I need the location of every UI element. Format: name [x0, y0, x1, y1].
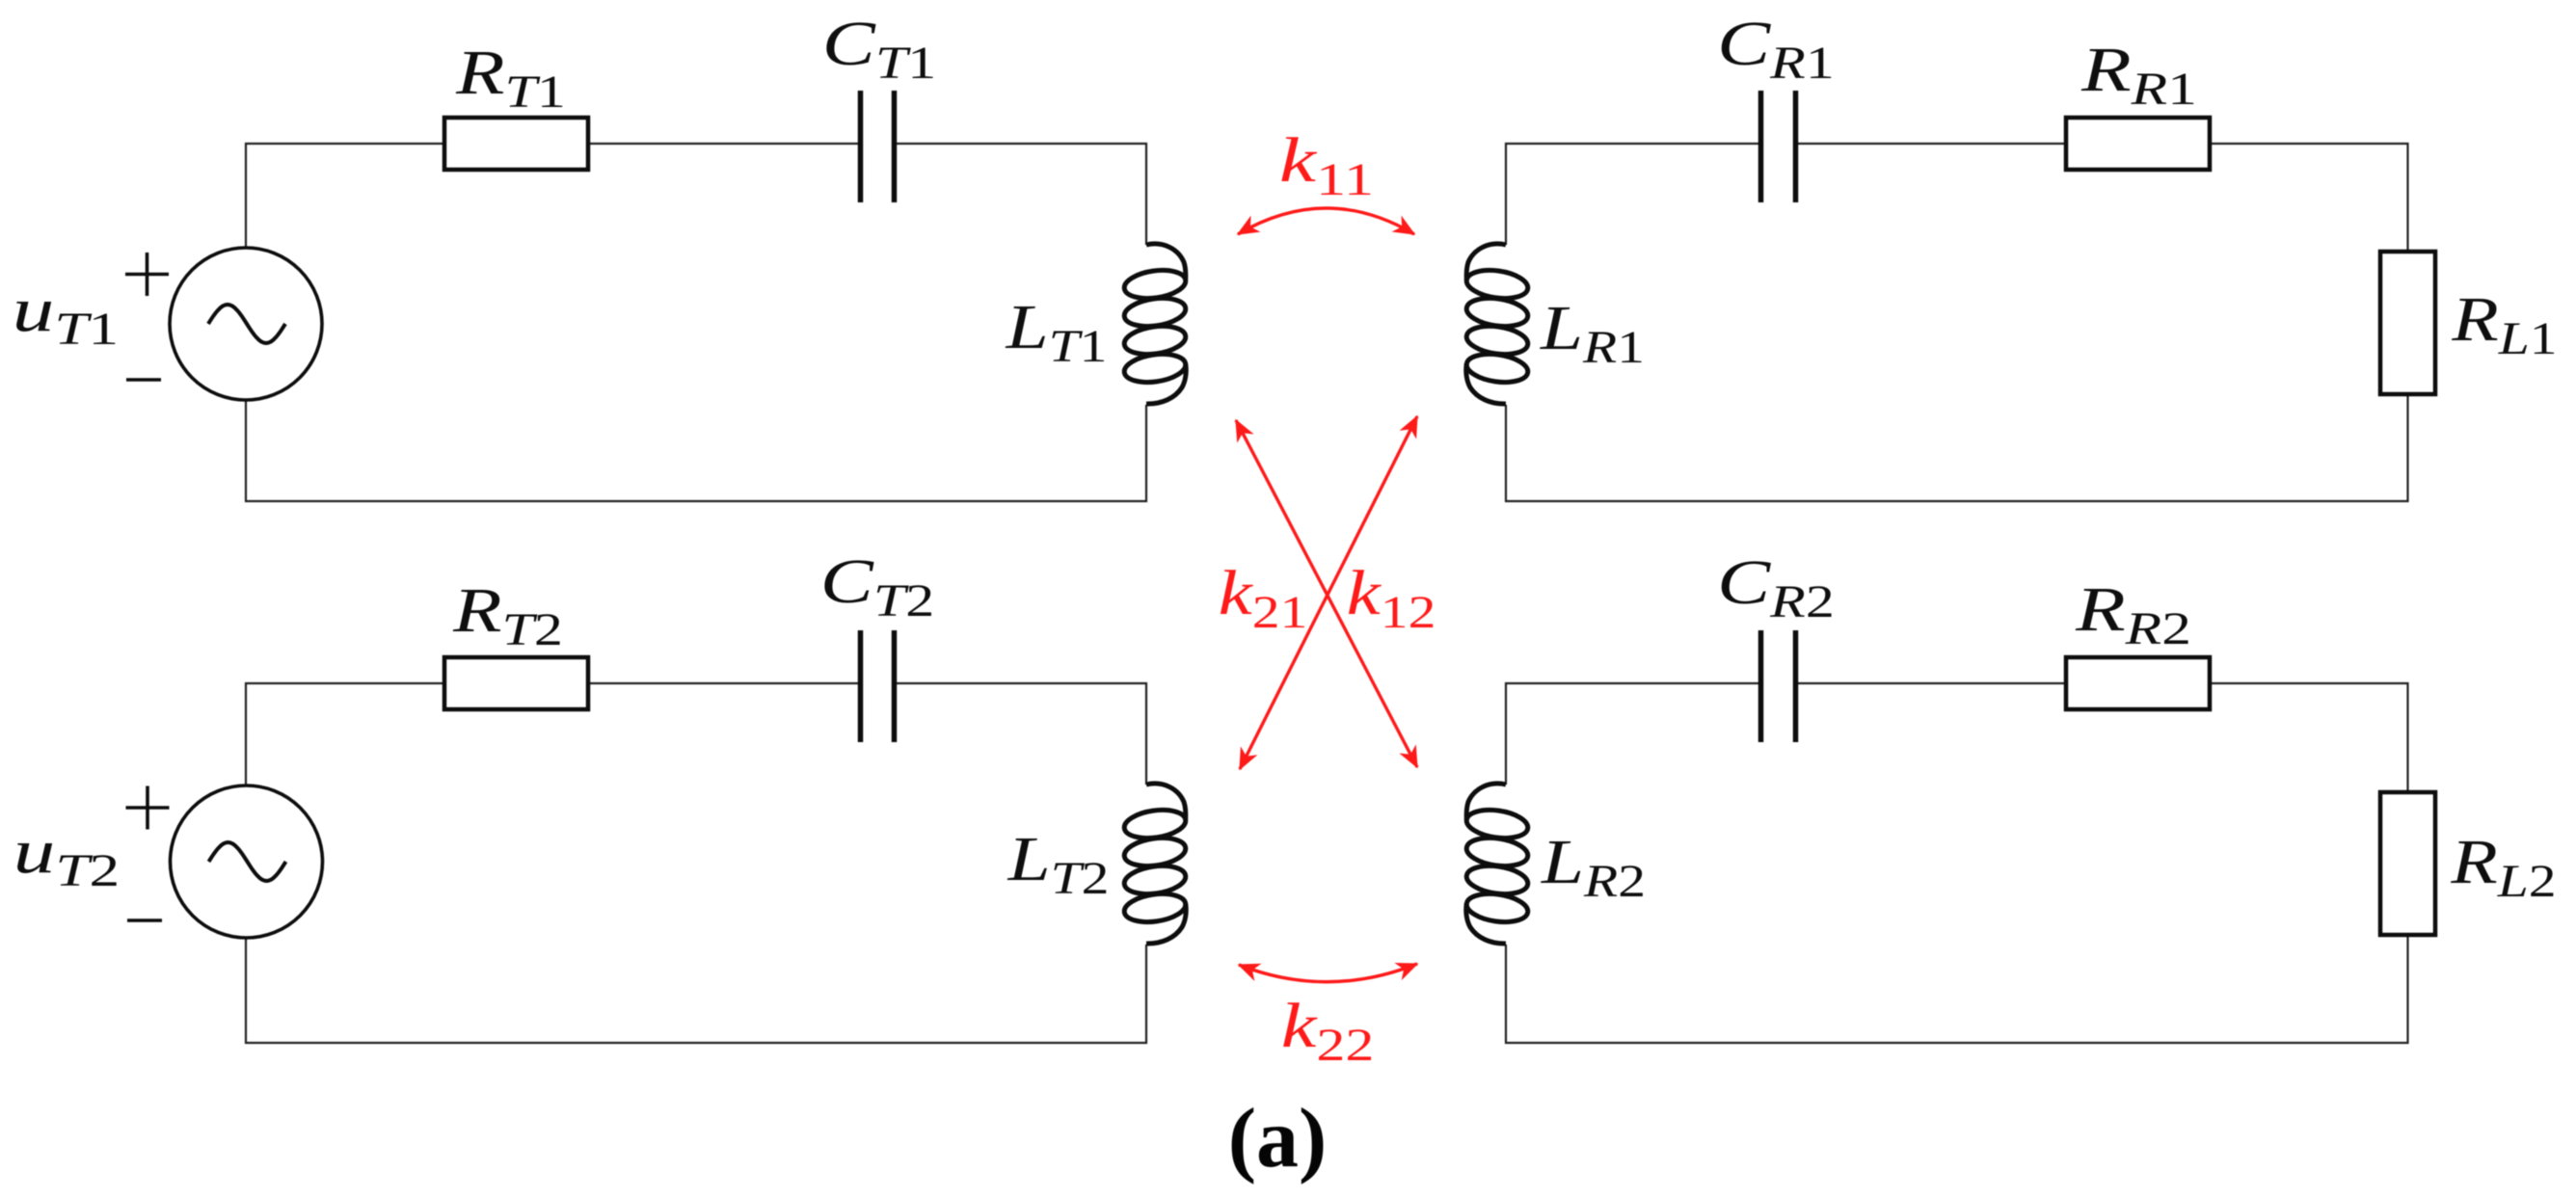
- svg-text:(a): (a): [1228, 1092, 1328, 1185]
